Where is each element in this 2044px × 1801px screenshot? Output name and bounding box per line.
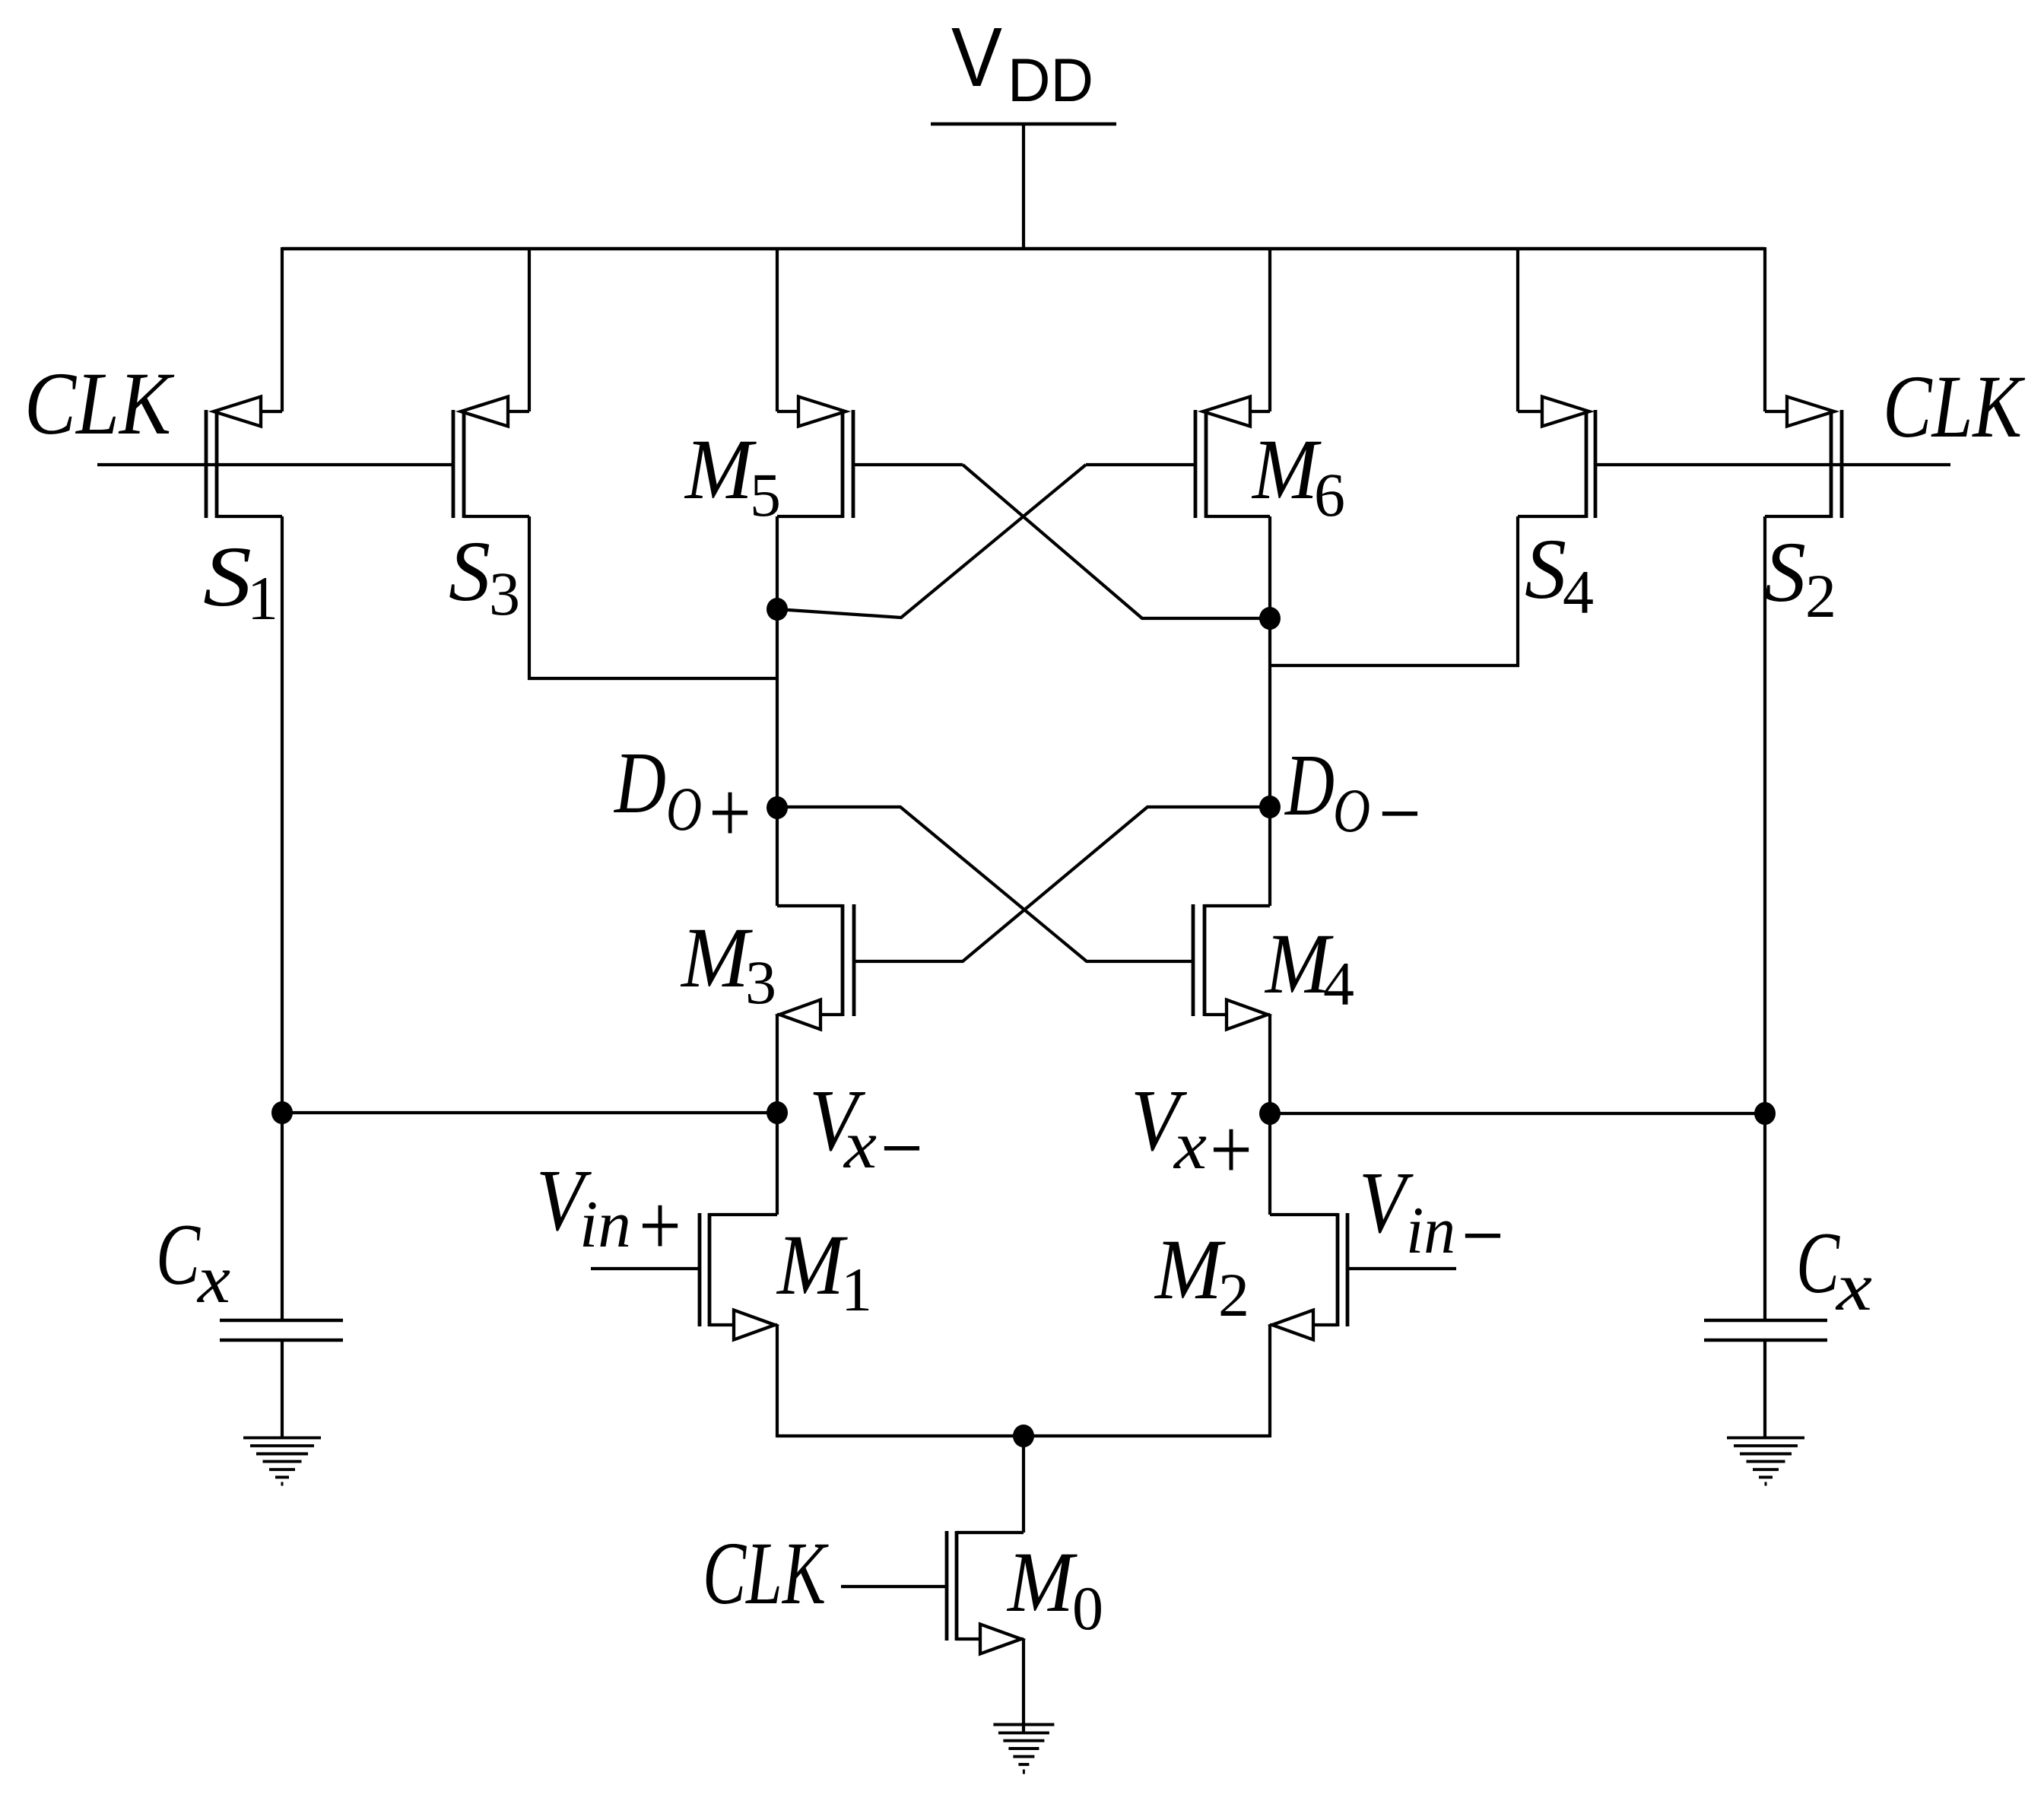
node Vx+ right junction (1754, 1102, 1776, 1125)
transistor S4 (PMOS switch) (1585, 410, 1589, 518)
wire M5 source vertical (776, 247, 779, 411)
svg-text:C: C (1796, 1215, 1840, 1311)
svg-text:M: M (684, 422, 757, 517)
svg-text:D: D (613, 735, 666, 831)
svg-text:M: M (1251, 422, 1322, 517)
svg-text:1: 1 (247, 564, 278, 633)
svg-text:x: x (196, 1242, 230, 1317)
wire M4 source vertical (1268, 1015, 1271, 1215)
node Vx+ (1259, 1102, 1281, 1125)
wire M5 gate lead (853, 463, 963, 466)
wire S2 drain vertical (1763, 516, 1766, 1113)
svg-text:O: O (1333, 776, 1370, 845)
node Vx- left junction (271, 1101, 293, 1124)
wire M2 source vertical (1268, 1325, 1271, 1437)
svg-text:−: − (1379, 765, 1421, 862)
svg-text:S: S (1764, 525, 1806, 620)
svg-text:M: M (1006, 1535, 1078, 1630)
svg-text:S: S (1525, 522, 1566, 617)
transistor M2 (NMOS input) (1336, 1213, 1340, 1326)
svg-text:in: in (579, 1188, 631, 1262)
wire cross-couple M5gate-to-M6drain (963, 465, 1270, 618)
wire M0 source vertical (1022, 1639, 1025, 1732)
capacitor Cx left (220, 1319, 343, 1323)
wire Cx-left top stem (281, 1113, 284, 1320)
ground (M0 source) (993, 1723, 1054, 1726)
wire S3 drain vertical (529, 516, 777, 678)
svg-text:+: + (639, 1177, 681, 1274)
svg-text:C: C (156, 1206, 201, 1303)
wire Vx- horizontal (282, 1111, 777, 1114)
svg-text:O: O (666, 774, 702, 843)
svg-text:CLK: CLK (1883, 357, 2025, 456)
wire cross-couple M6gate-to-M5drain (777, 465, 1086, 618)
wire S1 source vertical (281, 247, 284, 411)
svg-text:in: in (1406, 1194, 1455, 1268)
node M6 drain junction (1259, 607, 1281, 630)
wire S1 drain vertical (281, 516, 284, 1113)
wire S4 source vertical (1516, 247, 1519, 411)
svg-text:−: − (1462, 1187, 1504, 1284)
wire Vx+ horizontal (1270, 1112, 1765, 1115)
ground (Cx right) (1727, 1436, 1804, 1439)
wire tail horizontal (777, 1434, 1270, 1437)
node tail junction (1013, 1425, 1034, 1447)
svg-text:3: 3 (489, 559, 520, 628)
wire S3 source vertical (528, 247, 531, 411)
svg-text:x: x (1835, 1250, 1872, 1325)
transistor M5 (PMOS latch) (841, 410, 845, 518)
transistor M3 (NMOS latch) (841, 904, 845, 1016)
transistor S2 (PMOS switch) (1830, 410, 1833, 518)
wire M6 source vertical (1268, 247, 1271, 411)
wire M0 gate lead (841, 1585, 947, 1588)
wire M6 drain vertical (D_O- column) (1268, 516, 1271, 906)
wire Cx-right bottom stem (1763, 1340, 1766, 1437)
wire Cx-right top stem (1763, 1113, 1766, 1320)
wire M3 source vertical (776, 1015, 779, 1215)
svg-text:M: M (680, 910, 753, 1005)
svg-text:CLK: CLK (24, 354, 175, 453)
transistor M4 (NMOS latch) (1203, 904, 1207, 1016)
svg-text:x: x (843, 1107, 877, 1183)
svg-text:x: x (1173, 1108, 1207, 1183)
wire M2 gate lead (Vin-) (1347, 1267, 1456, 1270)
transistor M6 (PMOS latch) (1204, 410, 1208, 518)
svg-text:6: 6 (1314, 460, 1345, 529)
svg-text:−: − (881, 1100, 923, 1196)
transistor S3 (PMOS switch) (462, 410, 466, 518)
transistor S1 (PMOS switch) (215, 410, 219, 518)
svg-text:CLK: CLK (703, 1523, 829, 1623)
transistor M0 (NMOS tail) (955, 1531, 959, 1641)
wire VDD stem (1022, 124, 1025, 250)
wire tail stem (1022, 1436, 1025, 1533)
transistor M1 (NMOS input) (708, 1213, 712, 1326)
svg-text:4: 4 (1563, 557, 1594, 627)
svg-text:D: D (1284, 737, 1335, 834)
wire S2 source vertical (1763, 247, 1766, 411)
svg-text:M: M (776, 1218, 848, 1313)
svg-text:3: 3 (745, 948, 776, 1017)
svg-text:M: M (1154, 1222, 1226, 1317)
wire M1 gate lead (Vin+) (591, 1267, 700, 1270)
VDD supply bar (931, 122, 1116, 125)
wire M6 gate lead (1086, 463, 1195, 466)
wire S4 drain vertical (1270, 516, 1518, 665)
svg-text:S: S (449, 524, 490, 619)
node D_O- (1259, 796, 1281, 818)
capacitor Cx right (1704, 1319, 1827, 1323)
node Vx- (766, 1101, 788, 1124)
wire cross-couple DO--to-M3gate (854, 807, 1270, 961)
svg-text:2: 2 (1805, 561, 1836, 631)
ground (Cx left) (243, 1436, 321, 1439)
wire CLK line right (1595, 463, 1950, 466)
wire Cx-left bottom stem (281, 1340, 284, 1437)
svg-text:0: 0 (1072, 1574, 1103, 1643)
wire M5 drain vertical (D_O+ column) (776, 516, 779, 906)
svg-text:+: + (1210, 1101, 1252, 1198)
svg-text:2: 2 (1218, 1260, 1249, 1329)
wire cross-couple DO+-to-M4gate (777, 807, 1193, 961)
svg-text:+: + (709, 764, 751, 861)
svg-text:V: V (951, 11, 1002, 104)
node D_O+ (766, 796, 788, 819)
wire M1 source vertical (776, 1325, 779, 1437)
svg-text:1: 1 (841, 1255, 872, 1324)
svg-text:4: 4 (1323, 949, 1354, 1018)
svg-text:S: S (203, 529, 252, 624)
wire VDD rail (282, 247, 1765, 250)
wire CLK line left (97, 463, 453, 466)
svg-text:DD: DD (1008, 46, 1093, 115)
node M5 drain junction (766, 598, 788, 621)
